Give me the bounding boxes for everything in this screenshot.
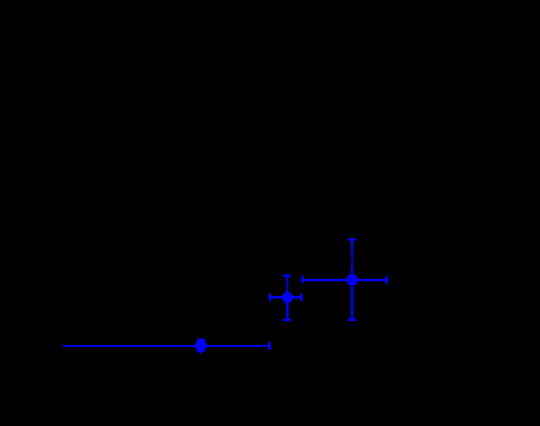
data point P2 horizontal error bar	[270, 296, 302, 298]
data point P2 bottom cap	[283, 319, 291, 321]
data point P2 upper error line solid part	[286, 276, 288, 280]
data point P2 top cap	[283, 275, 291, 277]
data point P2 lower error line	[286, 292, 288, 320]
data point P3 upper error line dashed part	[351, 252, 353, 270]
data point P3 left cap	[301, 276, 303, 284]
data point P3 upper error line solid part	[351, 240, 353, 252]
data point P3 top cap	[348, 238, 357, 240]
data point P1 marker (filled circle)	[195, 340, 207, 352]
data point P3 right cap	[385, 276, 387, 284]
data point P3 lower error line	[351, 269, 353, 320]
data point P3 marker (open circle)	[348, 276, 357, 285]
data point P2 marker (open circle)	[283, 293, 291, 301]
data point P3 bottom cap	[348, 319, 356, 321]
data point P1 horizontal error bar	[63, 345, 270, 347]
data point P2 right cap	[300, 293, 302, 301]
data point P3 horizontal error bar	[302, 279, 386, 281]
data point P1 right cap	[268, 342, 271, 350]
data point P2 upper error line dashed part	[286, 280, 288, 294]
data point P1 vertical error bar block	[197, 339, 205, 352]
data point P1 lower nub	[200, 352, 203, 354]
data point P2 left cap	[269, 293, 271, 301]
